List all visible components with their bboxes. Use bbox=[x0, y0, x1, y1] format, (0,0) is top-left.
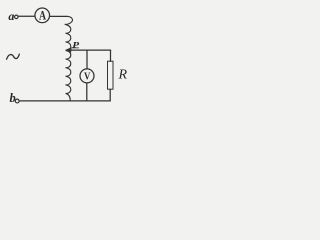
voltmeter branch wire bottom bbox=[86, 83, 88, 101]
terminal b bbox=[15, 99, 19, 103]
svg-text:P: P bbox=[72, 41, 80, 50]
bottom wire bbox=[20, 100, 110, 102]
voltmeter branch wire top bbox=[86, 50, 88, 69]
wire ammeter to coil bbox=[50, 15, 68, 17]
AC source tilde bbox=[7, 54, 20, 59]
terminal a bbox=[15, 15, 19, 19]
tap wire from P bbox=[71, 49, 111, 51]
top-right corner wire down to resistor bbox=[110, 50, 112, 61]
svg-text:V: V bbox=[84, 71, 90, 83]
svg-text:a: a bbox=[8, 9, 14, 23]
voltmeter V1 bbox=[80, 69, 94, 83]
tap arrow head bbox=[65, 47, 71, 53]
svg-text:R: R bbox=[118, 67, 128, 82]
svg-text:b: b bbox=[10, 91, 16, 105]
coil L1 (potentiometer winding) bbox=[65, 16, 73, 100]
resistor R box bbox=[108, 61, 114, 89]
wire a to ammeter bbox=[18, 15, 34, 17]
P underline foot bbox=[72, 47, 79, 49]
svg-text:A: A bbox=[39, 9, 46, 22]
background bbox=[0, 0, 131, 107]
ammeter A1 bbox=[35, 8, 50, 23]
resistor bottom lead bbox=[109, 89, 111, 101]
